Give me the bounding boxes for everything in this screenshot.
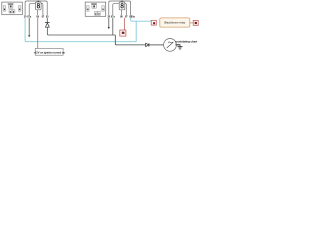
wire diode D2 to siren: [149, 44, 164, 46]
wire cyan from K1 pin 30: [25, 18, 136, 42]
diode D1: [45, 23, 50, 28]
svg-text:87a: 87a: [111, 15, 116, 18]
relay K2 coil core: [92, 5, 96, 8]
wire arrow terminal from pin 87a: [28, 18, 30, 37]
wire coil L2 right inner loop: [125, 4, 127, 16]
relay K2 pin left: [87, 6, 90, 12]
wire cyan riser node: [135, 21, 137, 42]
wire arrow terminal from K2 pin 30: [108, 18, 110, 29]
wire coil L2 top loop: [109, 0, 131, 15]
relay K1 coil core: [9, 5, 13, 8]
svg-text:+12V on ignition turned on: +12V on ignition turned on: [33, 50, 65, 54]
wire red from K2 pin 87 to connector: [123, 18, 125, 30]
connector J2 red: [151, 20, 156, 25]
relay K2 pins bottom: [94, 11, 100, 15]
relay K1 pin right: [18, 6, 21, 12]
wire from K2 pin 87a to junction: [112, 18, 114, 35]
relay K2 outline: [85, 2, 106, 16]
wire red from pin 86 to note: [37, 18, 39, 49]
module Blackthorne relay: [160, 18, 190, 27]
wire coil L1 left inner loop: [29, 4, 35, 16]
svg-text:Blackthorne relay: Blackthorne relay: [164, 21, 185, 25]
relay K1 pins bottom: [9, 10, 15, 14]
relay coil L2: [119, 2, 125, 10]
wire coil L1 top loop: [25, 0, 47, 15]
relay K2 coil bar: [91, 3, 97, 5]
siren M1: [164, 39, 177, 52]
wire coil L2 left inner loop: [113, 4, 119, 16]
connector J1 red: [120, 30, 126, 36]
wire cyan from K2 pin 85: [131, 18, 152, 21]
svg-text:30a: 30a: [131, 15, 136, 18]
wire coil L1 right inner loop: [41, 4, 43, 16]
svg-text:87a: 87a: [27, 15, 32, 18]
connector J3 red: [193, 20, 198, 25]
wire module to J3: [190, 22, 193, 24]
wire from diode D1 to junction: [47, 27, 115, 35]
relay K1 coil bar: [8, 3, 14, 5]
relay K2 pin right: [102, 6, 105, 12]
relay K1 outline: [2, 2, 23, 15]
relay coil L1: [36, 2, 42, 10]
diode D2: [146, 43, 149, 46]
wire coil L2 bottom lead: [120, 10, 122, 15]
wire coil L1 bottom lead: [37, 10, 39, 15]
wire from pin 85 to diode D1: [46, 18, 48, 23]
wire siren to ground: [176, 45, 180, 47]
note +12V: [33, 48, 65, 55]
relay K1 pin left: [3, 6, 5, 12]
ground: [178, 47, 183, 50]
wire junction to siren: [115, 35, 145, 45]
